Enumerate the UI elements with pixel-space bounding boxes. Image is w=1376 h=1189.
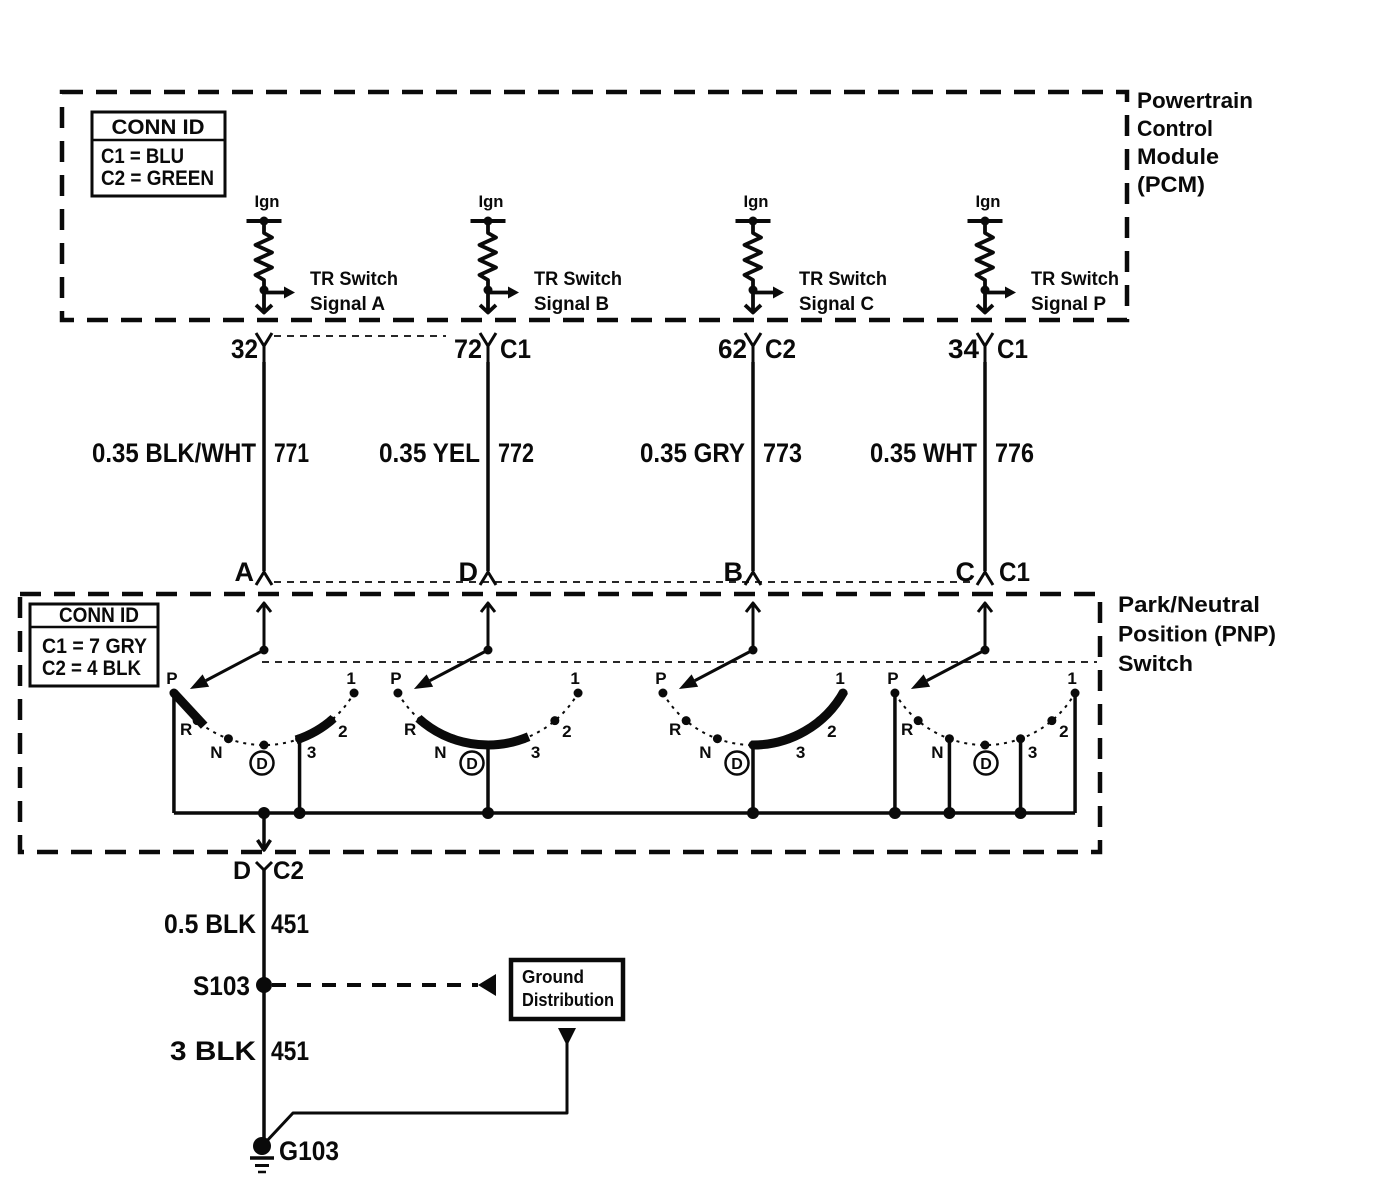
- svg-text:R: R: [180, 720, 192, 739]
- svg-text:Ign: Ign: [744, 192, 769, 211]
- svg-text:Powertrain: Powertrain: [1137, 88, 1253, 113]
- svg-text:Switch: Switch: [1118, 651, 1193, 676]
- svg-text:Ground: Ground: [522, 967, 584, 987]
- svg-text:R: R: [404, 720, 416, 739]
- svg-text:62: 62: [718, 334, 747, 364]
- svg-text:772: 772: [498, 438, 534, 468]
- svg-text:R: R: [901, 720, 913, 739]
- svg-text:776: 776: [995, 438, 1034, 468]
- svg-text:Signal A: Signal A: [310, 294, 385, 315]
- svg-text:N: N: [931, 743, 943, 762]
- svg-text:0.35 BLK/WHT: 0.35 BLK/WHT: [92, 438, 256, 468]
- svg-text:2: 2: [562, 722, 571, 741]
- svg-text:C2: C2: [273, 857, 304, 885]
- svg-text:3 BLK: 3 BLK: [170, 1036, 257, 1066]
- svg-text:771: 771: [274, 438, 309, 468]
- svg-text:C1 = BLU: C1 = BLU: [101, 145, 184, 168]
- svg-text:D: D: [256, 756, 268, 773]
- svg-text:P: P: [390, 669, 401, 688]
- svg-text:1: 1: [835, 669, 844, 688]
- svg-text:32: 32: [231, 334, 258, 364]
- svg-text:G103: G103: [279, 1136, 339, 1166]
- svg-text:TR Switch: TR Switch: [310, 269, 398, 290]
- svg-text:72: 72: [454, 334, 482, 364]
- svg-text:0.35 GRY: 0.35 GRY: [640, 438, 745, 468]
- svg-text:451: 451: [271, 909, 309, 939]
- svg-text:773: 773: [763, 438, 802, 468]
- svg-text:34: 34: [948, 334, 979, 364]
- svg-text:2: 2: [1059, 722, 1068, 741]
- svg-text:N: N: [210, 743, 222, 762]
- svg-text:N: N: [434, 743, 446, 762]
- svg-text:Signal P: Signal P: [1031, 294, 1106, 315]
- svg-text:P: P: [655, 669, 666, 688]
- svg-text:Ign: Ign: [255, 192, 280, 211]
- svg-text:TR Switch: TR Switch: [799, 269, 887, 290]
- svg-text:TR Switch: TR Switch: [534, 269, 622, 290]
- svg-text:A: A: [235, 557, 255, 587]
- svg-text:Position (PNP): Position (PNP): [1118, 622, 1276, 647]
- svg-text:0.35 YEL: 0.35 YEL: [379, 438, 480, 468]
- svg-text:Module: Module: [1137, 144, 1219, 169]
- svg-text:3: 3: [307, 743, 316, 762]
- svg-text:1: 1: [570, 669, 579, 688]
- svg-text:3: 3: [531, 743, 540, 762]
- svg-text:CONN ID: CONN ID: [59, 604, 139, 627]
- svg-text:Ign: Ign: [479, 192, 504, 211]
- svg-text:Distribution: Distribution: [522, 990, 614, 1010]
- svg-text:C2 = 4 BLK: C2 = 4 BLK: [42, 657, 141, 680]
- svg-text:Park/Neutral: Park/Neutral: [1118, 592, 1260, 617]
- svg-text:0.5 BLK: 0.5 BLK: [164, 909, 256, 939]
- svg-text:CONN ID: CONN ID: [112, 116, 205, 139]
- svg-text:(PCM): (PCM): [1137, 172, 1205, 197]
- svg-text:3: 3: [1028, 743, 1037, 762]
- svg-text:Ign: Ign: [976, 192, 1001, 211]
- svg-text:S103: S103: [193, 971, 250, 1001]
- svg-text:N: N: [699, 743, 711, 762]
- svg-text:P: P: [166, 669, 177, 688]
- svg-text:D: D: [466, 756, 478, 773]
- svg-text:C2: C2: [765, 334, 796, 364]
- svg-text:0.35 WHT: 0.35 WHT: [870, 438, 977, 468]
- svg-text:D: D: [233, 857, 251, 885]
- svg-text:Signal B: Signal B: [534, 294, 609, 315]
- svg-text:Signal C: Signal C: [799, 294, 874, 315]
- svg-text:1: 1: [346, 669, 355, 688]
- svg-text:451: 451: [271, 1036, 309, 1066]
- svg-text:R: R: [669, 720, 681, 739]
- svg-text:Control: Control: [1137, 116, 1213, 141]
- svg-text:C2 = GREEN: C2 = GREEN: [101, 167, 214, 190]
- svg-text:D: D: [731, 756, 743, 773]
- svg-text:2: 2: [827, 722, 836, 741]
- svg-text:D: D: [980, 756, 992, 773]
- svg-text:TR Switch: TR Switch: [1031, 269, 1119, 290]
- svg-text:P: P: [887, 669, 898, 688]
- svg-text:C1: C1: [997, 334, 1028, 364]
- svg-text:1: 1: [1067, 669, 1076, 688]
- svg-text:2: 2: [338, 722, 347, 741]
- svg-text:3: 3: [796, 743, 805, 762]
- svg-text:C1: C1: [999, 557, 1030, 587]
- svg-text:C1: C1: [500, 334, 531, 364]
- svg-text:C1 = 7 GRY: C1 = 7 GRY: [42, 635, 147, 658]
